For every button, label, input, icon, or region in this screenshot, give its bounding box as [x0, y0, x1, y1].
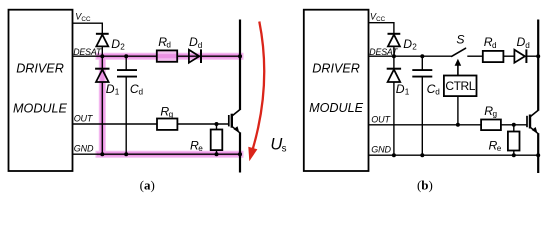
capacitor Cd (b) [421, 56, 423, 70]
node GND/D1 junction (b) [392, 153, 396, 157]
resistor Re (b) [508, 132, 520, 151]
svg-text:D: D [111, 37, 120, 51]
diode D2 [96, 33, 109, 35]
wire D2 to DESAT node (b) [393, 46, 395, 56]
wire Rd to Dd (b) [503, 55, 514, 57]
svg-text:D: D [517, 35, 526, 49]
wire Vcc down to D2 [101, 23, 103, 34]
diode Dd (b) [514, 50, 525, 63]
pink highlight band: DESAT-Rd-Dd loop [99, 56, 240, 154]
wire DESAT to switch [369, 55, 452, 57]
wire Re top (b) [513, 125, 515, 132]
svg-text:S: S [456, 33, 464, 47]
node GND/Cd junction (b) [420, 153, 424, 157]
switch S [452, 48, 466, 56]
svg-text:g: g [169, 110, 174, 119]
wire Vcc horizontal (b) [369, 22, 394, 24]
svg-text:GND: GND [74, 143, 94, 153]
capacitor Cd [125, 56, 127, 70]
transistor IGBT [228, 115, 230, 126]
node Dd/collector rail junction [238, 54, 242, 58]
node DESAT/D1 junction [100, 54, 104, 58]
svg-text:(b): (b) [417, 178, 433, 193]
wire Re top [216, 124, 218, 130]
svg-text:d: d [166, 41, 171, 50]
svg-text:D: D [189, 35, 198, 49]
wire DESAT rail horizontal [73, 55, 157, 57]
control arrow to switch [457, 64, 459, 76]
resistor Rg [157, 119, 177, 130]
svg-text:D: D [106, 82, 115, 96]
svg-text:CC: CC [376, 16, 386, 23]
svg-text:d: d [525, 41, 530, 50]
wire D1 to GND rail [101, 82, 103, 154]
wire Rd to Dd to rail [177, 55, 240, 57]
node GND/D1 junction [100, 152, 104, 156]
node DESAT/Cd junction [124, 54, 128, 58]
svg-text:(a): (a) [140, 178, 155, 193]
voltage arrow Us [253, 22, 265, 150]
svg-text:e: e [497, 144, 502, 153]
resistor Rd [157, 50, 177, 61]
svg-text:s: s [282, 144, 287, 155]
wire Re bottom (b) [513, 151, 515, 156]
svg-text:OUT: OUT [74, 114, 94, 124]
wire DESAT to D1 [101, 56, 103, 68]
svg-text:2: 2 [412, 43, 417, 52]
driver module box [9, 10, 73, 171]
svg-text:d: d [198, 41, 203, 50]
wire GND rail horizontal (b) [369, 154, 539, 156]
node OUT/CTRL junction (b) [456, 123, 460, 127]
driver module box (b) [304, 10, 369, 171]
wire DESAT to D1 (b) [393, 56, 395, 68]
block CTRL [444, 76, 477, 97]
resistor Rd (b) [483, 51, 504, 62]
wire D1 to GND rail (b) [393, 82, 395, 155]
wire emitter rail lower (b) [537, 133, 539, 173]
node GND/emitter rail junction [238, 152, 242, 156]
diode D1 [95, 68, 109, 70]
wire Vcc down to D2 (b) [393, 22, 395, 34]
diode D1 (b) [387, 68, 401, 70]
svg-text:D: D [403, 37, 412, 51]
diode Dd [189, 50, 199, 63]
svg-text:D: D [396, 82, 405, 96]
node GND/Cd junction [124, 152, 128, 156]
svg-text:1: 1 [405, 88, 410, 97]
svg-text:MODULE: MODULE [309, 101, 363, 115]
node DESAT/D1 junction (b) [392, 54, 396, 58]
svg-text:U: U [270, 135, 282, 153]
wire Re bottom [216, 150, 218, 154]
wire D2 to DESAT node [101, 46, 103, 56]
svg-text:d: d [492, 41, 497, 50]
svg-text:d: d [435, 88, 440, 97]
resistor Rd fill (under highlight) [157, 50, 177, 61]
svg-text:d: d [139, 88, 144, 97]
node OUT/Re junction [215, 122, 219, 126]
svg-text:1: 1 [115, 88, 120, 97]
node GND/Re junction (b) [512, 153, 516, 157]
node DESAT/Cd junction (b) [420, 54, 424, 58]
wire switch to Rd (b) [467, 55, 483, 57]
svg-text:CTRL: CTRL [445, 79, 475, 93]
svg-text:CC: CC [81, 16, 91, 23]
wire OUT to gate (b) [369, 124, 528, 126]
wire CTRL to OUT line [457, 96, 459, 125]
wire Vcc horizontal [73, 22, 103, 24]
svg-text:e: e [198, 144, 203, 153]
svg-text:OUT: OUT [371, 115, 391, 125]
node GND/Re junction [215, 152, 219, 156]
svg-text:g: g [493, 110, 498, 119]
wire OUT to gate [73, 123, 229, 125]
resistor Re [211, 130, 223, 151]
svg-text:GND: GND [371, 145, 391, 155]
svg-text:2: 2 [120, 43, 125, 52]
wire GND rail horizontal [73, 153, 241, 155]
wire emitter rail lower [239, 132, 241, 172]
svg-text:DRIVER: DRIVER [16, 62, 64, 76]
svg-text:MODULE: MODULE [13, 101, 67, 115]
transistor IGBT (b) [526, 116, 528, 127]
node Dd/collector rail junction (b) [536, 54, 540, 58]
wire collector rail upper (b) [537, 20, 539, 111]
node OUT/Re junction (b) [512, 123, 516, 127]
diode D2 (b) [388, 33, 401, 35]
resistor Rg (b) [481, 120, 501, 131]
svg-text:DRIVER: DRIVER [312, 62, 360, 76]
wire Dd to rail (b) [526, 55, 538, 57]
wire collector rail upper [239, 20, 241, 111]
node GND/emitter rail junction (b) [536, 153, 540, 157]
